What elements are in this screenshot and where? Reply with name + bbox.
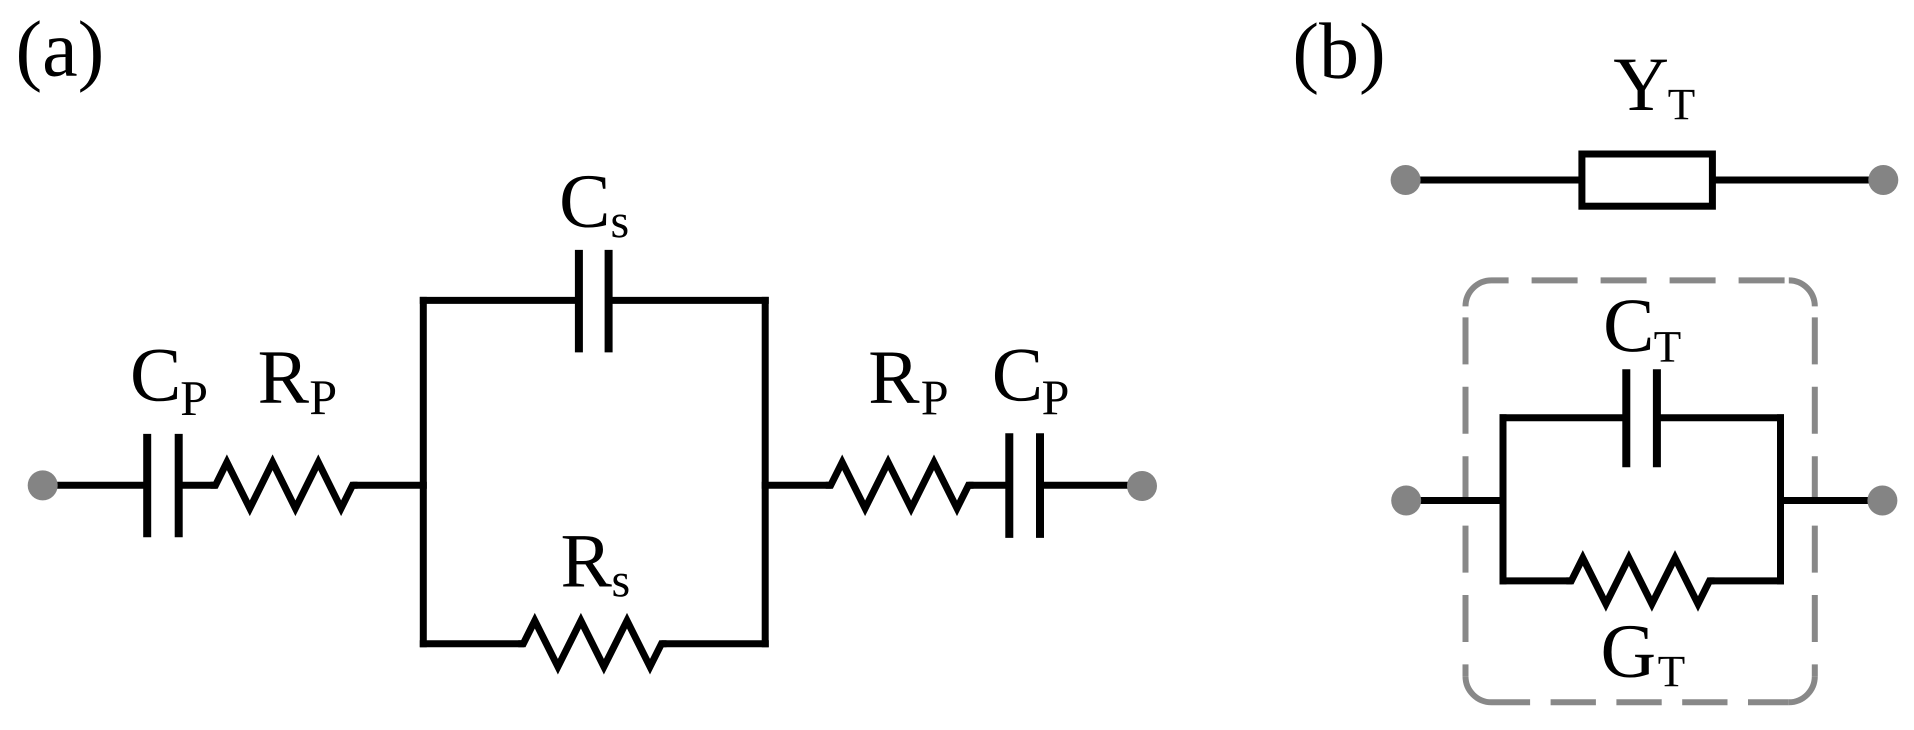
wire: bottom branch to Rs [420, 640, 769, 647]
wire: parallel box right branch [762, 297, 769, 647]
label Rs [563, 536, 629, 597]
terminal node (a) right [1127, 471, 1157, 501]
wire [43, 482, 148, 489]
wire [1781, 497, 1883, 504]
panel label (a) [19, 20, 101, 93]
resistor Rs [518, 621, 666, 667]
label CP (left) [133, 350, 206, 415]
capacitor CP (right): plates [1009, 433, 1040, 538]
wire: bottom branch to GT [1500, 577, 1785, 584]
terminal node (b) top-right [1868, 165, 1898, 195]
admittance element YT: box [1582, 154, 1713, 206]
label YT [1614, 60, 1694, 120]
label Cs [562, 176, 627, 238]
wire: top branch to Cs [420, 297, 769, 304]
dashed boundary box [1466, 280, 1815, 702]
label GT [1604, 626, 1685, 686]
capacitor CT: plates [1626, 369, 1657, 467]
wire [1406, 497, 1503, 504]
wire [1040, 482, 1142, 489]
terminal node (a) left [28, 470, 58, 500]
wire [179, 482, 217, 489]
label CT [1606, 300, 1680, 361]
wire: parallel box left branch [420, 297, 427, 647]
terminal node (b) top-left [1391, 165, 1421, 195]
label RP (left) [260, 352, 335, 414]
wire [1406, 177, 1582, 184]
wire [353, 482, 427, 489]
panel label (b) [1296, 22, 1382, 95]
wire [969, 482, 1010, 489]
label CP (right) [995, 349, 1067, 414]
wire [1712, 177, 1883, 184]
terminal node (b) mid-right [1867, 486, 1897, 516]
conductance GT (resistor) [1566, 558, 1714, 604]
resistor RP (left) [211, 462, 358, 508]
label RP (right) [870, 352, 946, 414]
wire [762, 482, 832, 489]
terminal node (b) mid-left [1391, 486, 1421, 516]
wire: top branch to CT [1500, 414, 1785, 421]
capacitor Cs: plates [579, 250, 609, 353]
wire: parallel box left branch [1500, 414, 1507, 584]
wire: parallel box right branch [1777, 414, 1784, 584]
capacitor CP (left): plates [147, 434, 179, 537]
resistor RP (right) [826, 462, 974, 508]
